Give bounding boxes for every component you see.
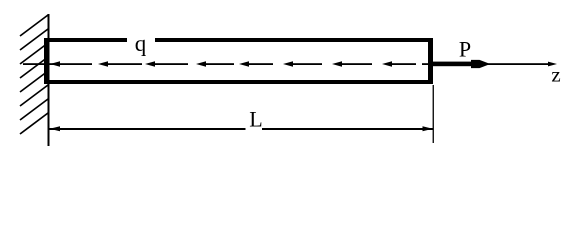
- svg-text:L: L: [249, 107, 262, 132]
- load arrow 3: [151, 63, 188, 65]
- bar left cap: [44, 38, 49, 84]
- bar top line right segment: [155, 38, 433, 42]
- load arrow 5: [245, 63, 273, 65]
- svg-text:P: P: [459, 36, 471, 61]
- svg-text:q: q: [135, 31, 147, 56]
- load arrow 8: [388, 63, 416, 65]
- load arrow 7: [338, 63, 372, 65]
- z axis arrowhead: [548, 62, 557, 67]
- load arrow 6: [289, 63, 322, 65]
- axis line through wall with first load arrow: [23, 63, 92, 65]
- dimension arrowhead left: [50, 126, 61, 131]
- wall hatching: [20, 15, 48, 134]
- dimension line right segment: [262, 128, 433, 130]
- force P shaft: [431, 62, 477, 67]
- bar right cap: [428, 38, 433, 84]
- load arrowhead 1: [50, 61, 60, 66]
- svg-text:z: z: [551, 63, 560, 87]
- force P arrowhead: [471, 60, 488, 68]
- dimension line left segment: [50, 128, 246, 130]
- bar top line left segment: [44, 38, 127, 42]
- load arrow 2: [104, 63, 142, 65]
- z axis thin line: [422, 63, 550, 65]
- bar bottom line: [44, 80, 433, 84]
- dimension extension line right: [433, 85, 434, 143]
- dimension arrowhead right: [423, 126, 434, 131]
- load arrow 4: [202, 63, 234, 65]
- wall line: [48, 14, 50, 146]
